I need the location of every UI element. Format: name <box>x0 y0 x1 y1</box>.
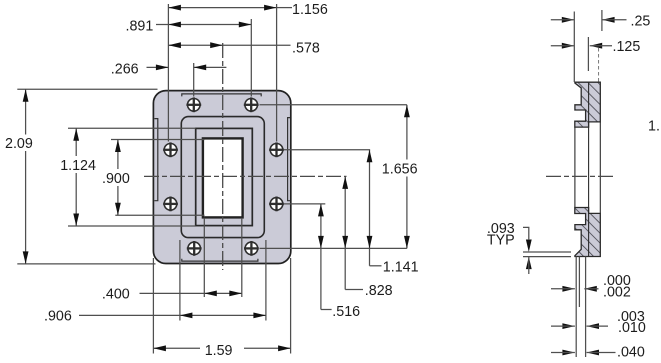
svg-text:.828: .828 <box>365 283 393 299</box>
svg-text:1.141: 1.141 <box>383 259 419 275</box>
svg-text:1.: 1. <box>648 118 660 134</box>
svg-text:TYP: TYP <box>487 232 515 248</box>
svg-text:.002: .002 <box>603 284 631 300</box>
svg-text:1.656: 1.656 <box>382 162 418 178</box>
svg-text:.25: .25 <box>631 13 651 29</box>
svg-text:.578: .578 <box>292 40 320 56</box>
svg-text:.040: .040 <box>617 345 645 361</box>
svg-text:1.156: 1.156 <box>292 2 328 18</box>
svg-text:.125: .125 <box>613 39 641 55</box>
svg-text:1.124: 1.124 <box>60 158 96 174</box>
svg-text:1.59: 1.59 <box>205 343 233 359</box>
svg-text:.010: .010 <box>618 320 646 336</box>
svg-text:.400: .400 <box>102 287 130 303</box>
svg-text:2.09: 2.09 <box>5 136 33 152</box>
svg-text:.891: .891 <box>126 18 154 34</box>
svg-text:.900: .900 <box>102 171 130 187</box>
svg-text:.516: .516 <box>332 304 360 320</box>
svg-text:.906: .906 <box>44 309 72 325</box>
svg-text:.266: .266 <box>111 61 139 77</box>
